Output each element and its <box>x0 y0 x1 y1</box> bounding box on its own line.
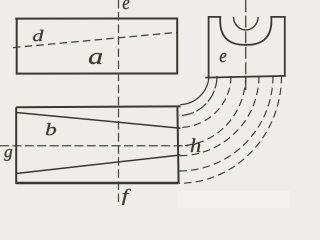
label a <box>89 53 102 64</box>
bend arc C dashed <box>179 76 231 128</box>
view b bottom edge (thick) <box>16 182 178 185</box>
bend arc D dashed centerline <box>179 76 246 146</box>
label e top <box>123 0 130 9</box>
block centerline vertical <box>245 0 247 93</box>
bend arc B solid <box>179 76 217 116</box>
taper line top (view b) <box>16 113 180 129</box>
bend arc A solid inner <box>180 76 209 105</box>
bend arc F dashed <box>179 76 273 171</box>
taper line bottom (view b) <box>16 155 180 174</box>
label f <box>122 189 131 205</box>
horizontal centerline g-h <box>0 145 189 147</box>
dashed line d <box>13 32 177 47</box>
bend arc G dashed outer <box>179 76 282 183</box>
label b <box>46 123 56 135</box>
label e block <box>220 53 227 62</box>
vertical centerline e-f <box>118 0 120 206</box>
rectangle view a <box>15 19 177 74</box>
label d <box>33 30 44 41</box>
bend arc E dashed <box>179 76 259 156</box>
label h <box>191 138 201 152</box>
rectangle view b outline <box>16 106 180 183</box>
inner groove semicircle (view e) <box>234 17 259 30</box>
block view e outline with notch <box>205 17 285 78</box>
label g <box>4 149 12 161</box>
